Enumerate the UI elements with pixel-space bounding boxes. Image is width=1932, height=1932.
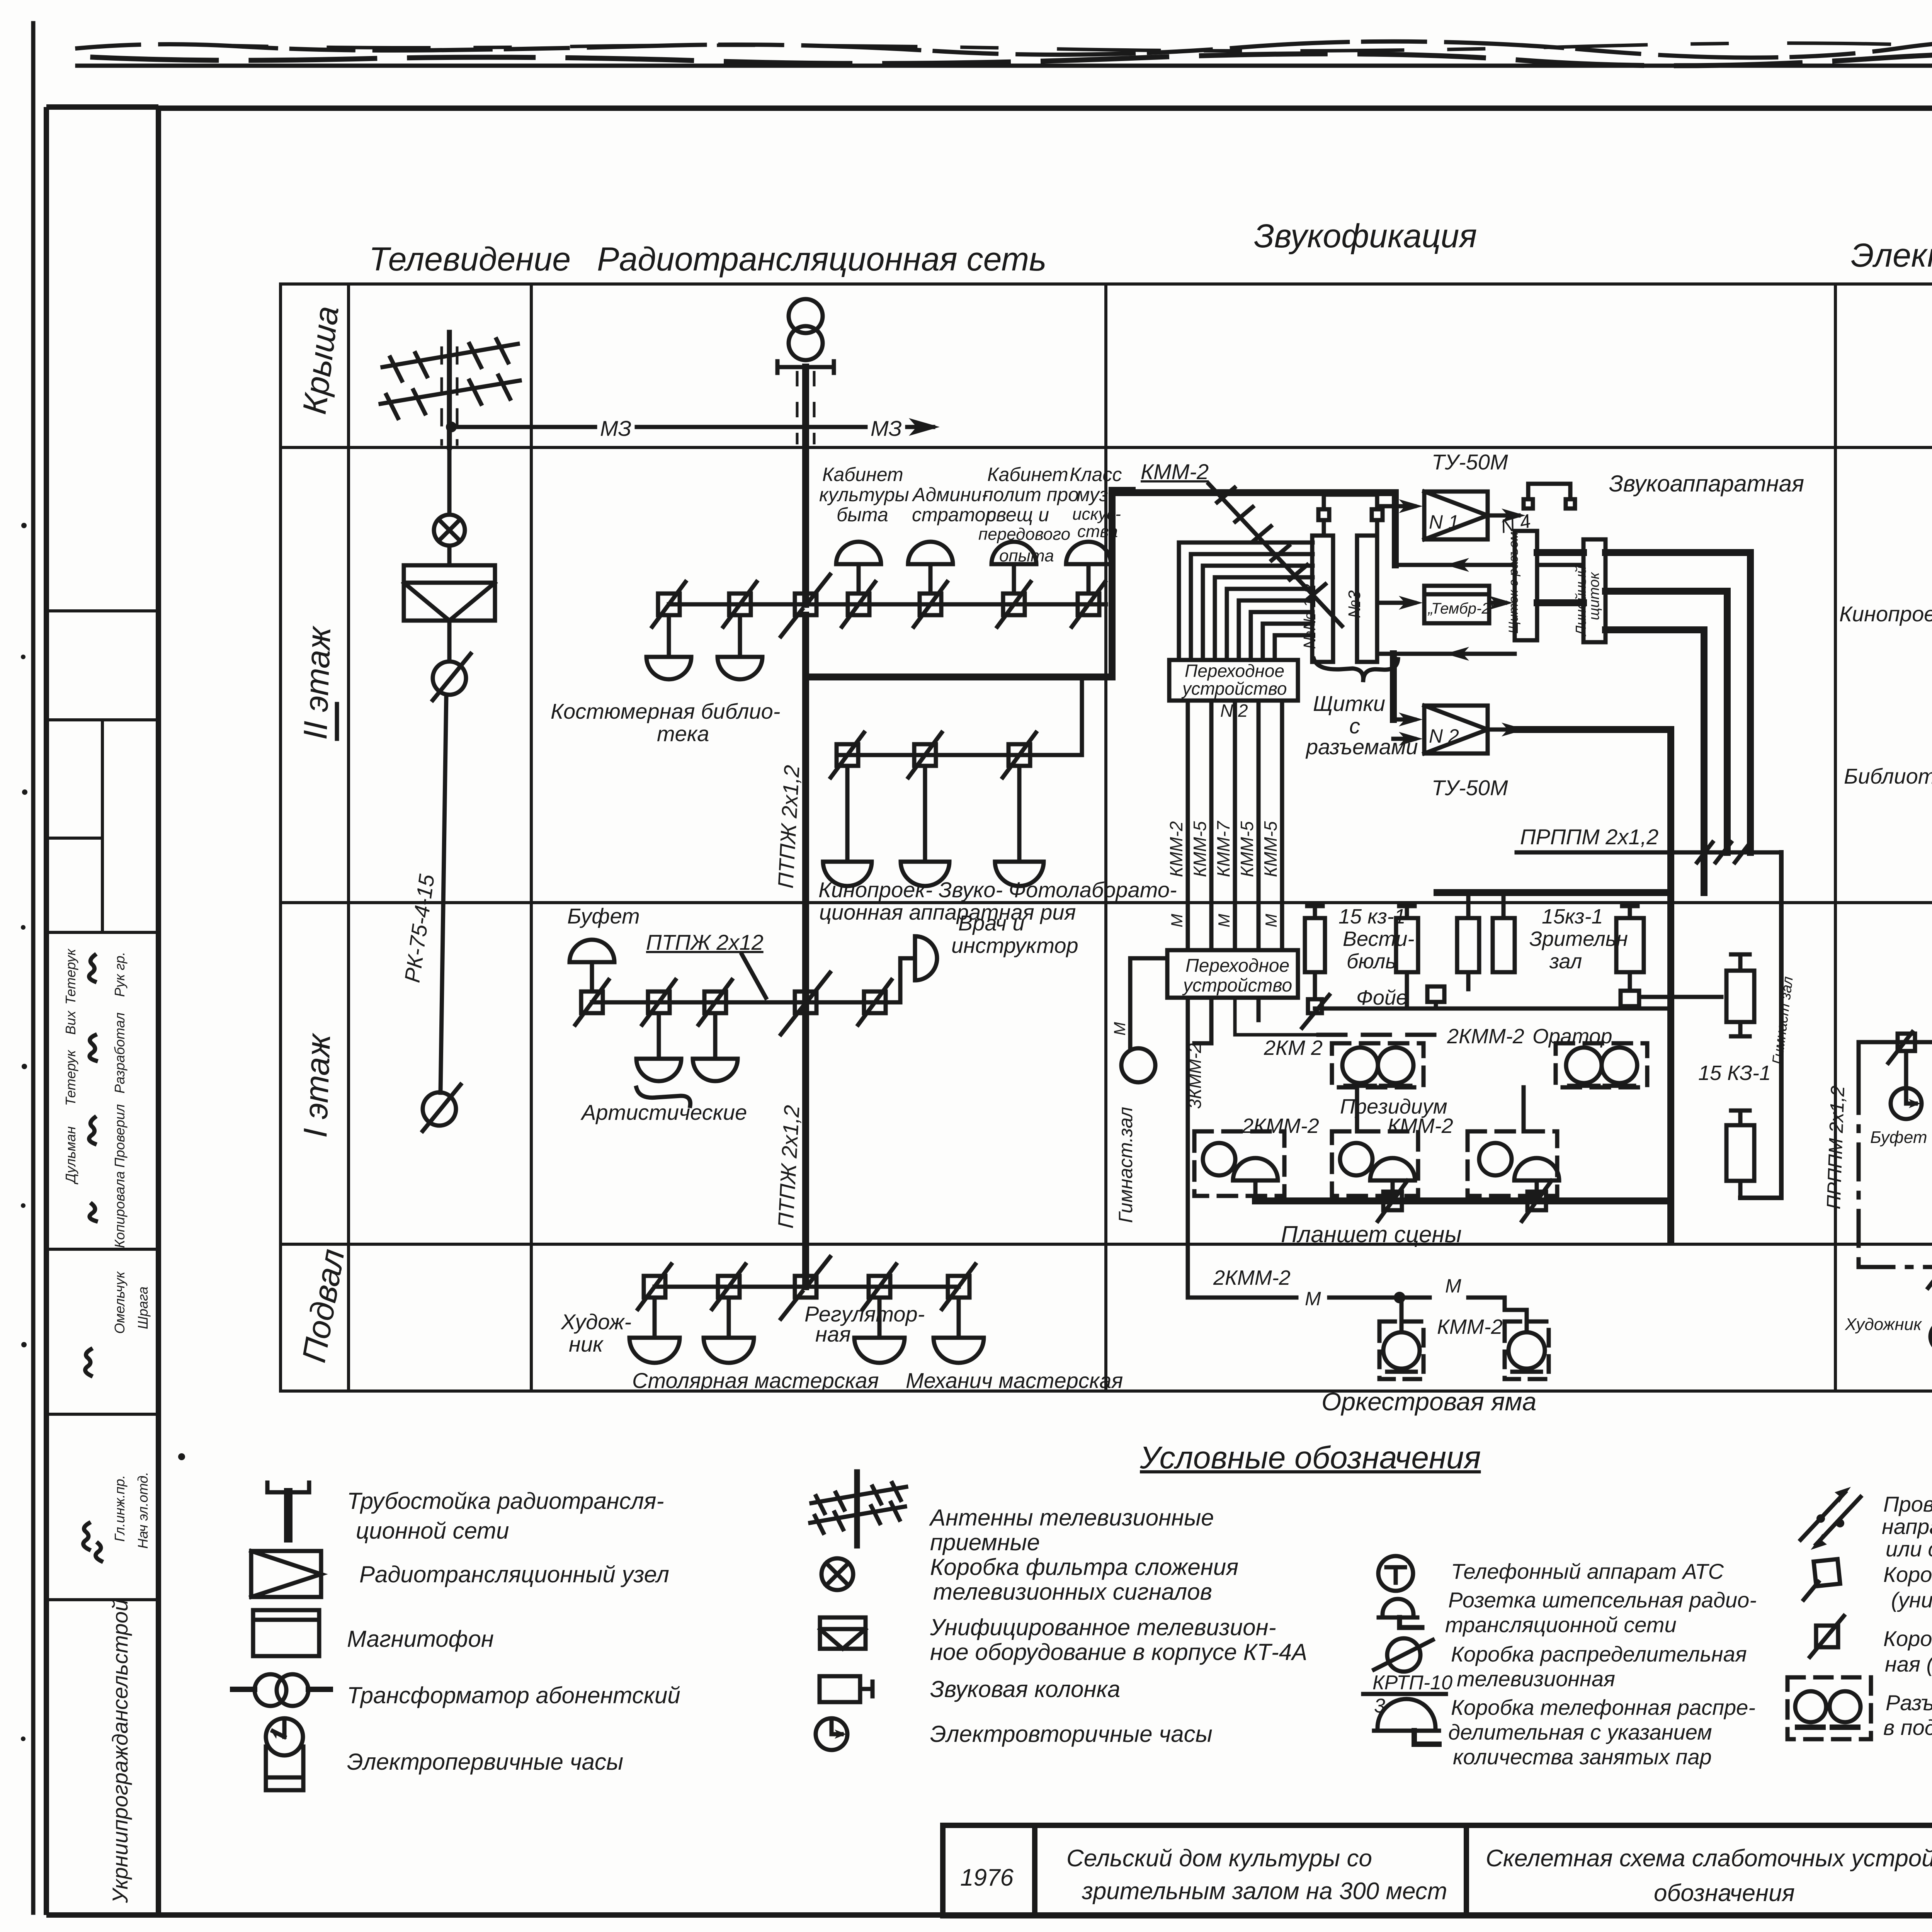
labels I floor clocks [1870,1128,1932,1185]
return line with left arrow (upper) [1395,558,1583,572]
orchestra mic box 1 [1379,1298,1423,1379]
svg-text:телевизионных сигналов: телевизионных сигналов [933,1579,1212,1605]
basement radio bus [655,1285,959,1289]
svg-text:КММ-2: КММ-2 [1388,1114,1453,1138]
I floor mic/speaker group C [1468,1131,1559,1196]
svg-text:Скелетная схема слаботочных: Скелетная схема слаботочных устройств Ус… [1486,1845,1932,1872]
svg-text:Коробка ответвительная: Коробка ответвительная [1883,1562,1932,1587]
radio loop to sound column [806,490,1132,677]
lightning protection wire МЗ with arrow [446,416,940,440]
speaker артистические 2 [693,1013,738,1081]
junction box [781,1257,830,1319]
svg-text:Нач эл.отд.: Нач эл.отд. [135,1472,151,1549]
Врач и инструктор branch [886,958,915,1002]
svg-text:КММ-5: КММ-5 [1237,821,1257,877]
svg-text:Оркестровая яма: Оркестровая яма [1321,1387,1536,1416]
svg-text:ПРППМ 2х1,2: ПРППМ 2х1,2 [1520,825,1658,849]
limiter box [842,582,875,627]
svg-text:2КММ-2: 2КММ-2 [1213,1266,1291,1289]
svg-text:Фойе: Фойе [1356,986,1408,1009]
KT-4A equipment symbol [820,1617,866,1649]
wire [447,621,452,662]
limiter box [858,980,891,1025]
svg-text:Радиотрансляционный узел: Радиотрансляционный узел [359,1561,669,1587]
limiter box on stage bus [1522,1181,1551,1221]
svg-text:инструктор: инструктор [951,933,1078,957]
svg-text:Шрага: Шрага [135,1286,151,1329]
speaker механич 1 [854,1298,905,1363]
connections panel to линейный щиток [1515,553,1583,730]
svg-text:Звукоаппаратная: Звукоаппаратная [1609,471,1804,497]
speaker socket Класс муз искусства [1066,542,1111,594]
svg-text:КММ-5: КММ-5 [1190,821,1210,877]
svg-text:Планшет сцены: Планшет сцены [1281,1221,1462,1247]
svg-text:Электровторичные часы: Электровторичные часы [930,1721,1213,1747]
dashed mic line 2КММ-2 [1318,1033,1441,1037]
svg-text:3КММ-2: 3КММ-2 [1185,1043,1205,1109]
svg-text:ная (универсальная): ная (универсальная) [1885,1652,1932,1676]
svg-text:II этаж: II этаж [297,625,338,740]
svg-text:Коробка распределительная: Коробка распределительная [1451,1642,1747,1666]
svg-text:Коробка телефонная распре-: Коробка телефонная распре- [1451,1695,1755,1719]
svg-text:устройство: устройство [1181,679,1287,699]
limiter box [712,1264,745,1309]
microphone trunk line [1112,493,1395,565]
connector panel N1,2 [1312,536,1333,662]
limiter box [863,1264,896,1309]
svg-text:Кинопроекционная: Кинопроекционная [1839,602,1932,626]
speakers артистические below [636,1013,681,1081]
svg-text:Коробка фильтра сложения: Коробка фильтра сложения [930,1554,1238,1580]
Гимнаст.зал mic jack [1130,958,1167,1048]
svg-text:приемные: приемные [930,1529,1040,1555]
right riser connecting all [1667,893,1674,1240]
link Президиум to group B [1355,1087,1359,1131]
amplifier N2 ТУ-50М [1424,706,1488,753]
svg-text:Столярная мастерская: Столярная мастерская [632,1368,879,1393]
svg-text:Звуковая колонка: Звуковая колонка [930,1676,1120,1702]
junction box [781,575,830,636]
svg-text:Условные обозначения: Условные обозначения [1139,1440,1481,1475]
svg-text:опыта: опыта [999,546,1054,565]
svg-text:Кабинет: Кабинет [822,464,903,485]
svg-text:бюль: бюль [1347,950,1396,973]
svg-text:Врач и: Врач и [958,911,1025,935]
junction box [781,973,830,1034]
svg-text:телевизионная: телевизионная [1457,1667,1615,1691]
radio riser (thick with dashed pair) [802,367,809,604]
svg-text:Тетерук: Тетерук [63,948,78,1005]
tape recorder symbol [253,1610,319,1656]
svg-text:КММ-2: КММ-2 [1166,821,1186,877]
TV filter box (circle-X) [434,515,465,546]
limiter box [638,1264,671,1309]
svg-text:культуры: культуры [819,484,909,505]
линейный щиток [1583,539,1605,642]
svg-text:разъемами: разъемами [1305,735,1418,759]
svg-text:тека: тека [657,721,709,746]
svg-text:Проверил: Проверил [112,1104,128,1168]
svg-text:Разъемы микрофонные: Разъемы микрофонные [1886,1690,1932,1715]
svg-text:быта: быта [837,504,888,526]
svg-text:Щиток с разъем.: Щиток с разъем. [1506,528,1521,634]
speaker звукоаппаратная [901,766,949,886]
svg-text:Костюмерная библио-: Костюмерная библио- [551,699,780,723]
svg-text:КРТП-10: КРТП-10 [1372,1672,1452,1694]
limiter box symbol [1810,1616,1844,1657]
svg-text:Переходное: Переходное [1185,956,1289,976]
branch box symbol [1804,1559,1840,1600]
svg-text:N 1: N 1 [1429,511,1459,533]
jumper plug pair above panels [1318,495,1383,536]
clock boxes basement [1928,1257,1932,1288]
svg-text:или снизу вверх: или снизу вверх [1886,1537,1932,1561]
secondary clock symbol [816,1718,847,1750]
link Оратор to group C [1522,1087,1526,1131]
II floor radio bus [669,602,1106,607]
basement speakers [629,1298,680,1363]
limiter box [1072,582,1105,627]
svg-text:Буфет: Буфет [567,904,640,928]
I floor mic/speaker group B [1332,1131,1418,1196]
arrows into/out of N1 [1377,499,1526,522]
speaker socket Кабинет культуры быта [836,542,881,594]
I floor mic/speaker group A [1194,1131,1284,1201]
subscriber transformer on pipe stand [777,299,834,373]
svg-text:Провода и кабели в стояке: Провода и кабели в стояке [1883,1492,1932,1516]
svg-text:Звукофикация: Звукофикация [1254,218,1477,255]
speaker Врач и инструктор [915,936,937,980]
limiter box [699,980,732,1025]
microphone connectors symbol [1787,1677,1871,1739]
left stamp block [46,107,158,1915]
TV distribution box (circle with slash) [433,654,471,700]
svg-text:Класс: Класс [1070,464,1122,485]
svg-text:трансляционной сети: трансляционной сети [1445,1612,1677,1637]
svg-text:ная: ная [815,1322,851,1346]
svg-text:М: М [1305,1288,1321,1310]
svg-text:2КМ 2: 2КМ 2 [1264,1036,1323,1060]
svg-text:передового: передового [978,525,1070,544]
return line with left arrow (lower) [1377,647,1515,661]
radio socket symbol [1379,1599,1422,1628]
TV distribution box 2 [423,1085,461,1131]
speaker столярная 2 [704,1298,754,1363]
svg-text:№№ 1,2: №№ 1,2 [1300,584,1319,649]
pipe stand symbol [267,1483,309,1538]
svg-text:„Тембр-2“: „Тембр-2“ [1427,600,1497,617]
limiter box [997,582,1031,627]
arrows into N2 [1393,713,1526,746]
wire [447,546,452,565]
svg-text:Магнитофон: Магнитофон [347,1626,494,1652]
limiter box [1003,733,1036,777]
svg-text:Дульман: Дульман [63,1126,78,1185]
basement clock bus [1859,1267,1932,1321]
svg-text:ТУ-50М: ТУ-50М [1432,776,1508,800]
svg-text:Переходное: Переходное [1185,661,1284,681]
speaker Костюмерная (below) [646,615,691,679]
svg-text:Библиотека: Библиотека [1844,764,1932,788]
svg-text:полит про: полит про [983,484,1079,505]
svg-text:15 КЗ-1: 15 КЗ-1 [1698,1061,1771,1085]
speaker Буфет above [570,940,614,992]
limiter box [575,980,609,1025]
svg-text:Копировала: Копировала [112,1171,128,1248]
svg-text:количества занятых пар: количества занятых пар [1453,1745,1712,1769]
speaker библиотека (below) [718,615,762,679]
orchestra mic box 2 [1505,1298,1549,1379]
15КЗ-1 loudspeaker columns Вестибюль [1305,906,1418,1013]
patch panel (Щиток с разъемами) [1515,531,1537,640]
Переходное устройство (lower box) [1167,950,1298,998]
cable РК-75-4-15 [440,695,446,1093]
svg-text:I этаж: I этаж [297,1032,337,1138]
limiter box [914,582,947,627]
svg-text:Вести-: Вести- [1343,927,1414,951]
svg-text:устройство: устройство [1182,975,1292,996]
svg-text:Коробка ограничитель-: Коробка ограничитель- [1883,1626,1932,1651]
microphone cable bundle (nested L wires) [1179,543,1313,660]
svg-text:Буфет: Буфет [1870,1128,1927,1147]
svg-text:Антенны телевизионные: Антенны телевизионные [929,1505,1214,1531]
svg-text:КММ-7: КММ-7 [1213,821,1233,877]
orchestra pit mic line [1188,998,1296,1298]
Переходное устройство N2 (upper box) [1169,660,1298,701]
stage floor bus [1255,1197,1671,1204]
svg-text:стратор: стратор [912,504,996,526]
svg-text:Худож-: Худож- [560,1310,631,1334]
svg-text:Кинопроек- Звуко- Фотолаборато: Кинопроек- Звуко- Фотолаборато- [818,878,1177,902]
filter box symbol [821,1558,853,1590]
svg-text:Рук гр.: Рук гр. [112,952,128,997]
speaker socket Кабинет полит просвещ [992,542,1036,594]
subscriber transformer symbol [233,1674,330,1706]
svg-text:Розетка штепсельная радио-: Розетка штепсельная радио- [1448,1588,1757,1612]
svg-text:М: М [1445,1275,1461,1297]
svg-text:свещ и: свещ и [986,504,1049,526]
I floor clock bus [1859,1042,1932,1078]
II floor lower bus (кинопроекционная) [837,680,1082,755]
svg-text:направляются, сверху вниз: направляются, сверху вниз [1882,1514,1932,1539]
svg-text:М: М [1111,1022,1129,1036]
svg-text:1976: 1976 [960,1864,1014,1891]
svg-text:ник: ник [569,1332,604,1356]
scan noise top wavy lines [77,36,1932,68]
svg-text:Электропервичные часы: Электропервичные часы [347,1749,623,1775]
top feed line 15КЗ [1437,889,1671,896]
limiter box [652,582,685,627]
I floor radio bus [592,1000,886,1005]
speaker механич 2 [934,1298,984,1363]
svg-text:№3: №3 [1345,590,1364,618]
svg-text:ПРППМ 2х1,2: ПРППМ 2х1,2 [1823,1085,1849,1210]
svg-text:Сельский дом культуры со: Сельский дом культуры со [1066,1845,1372,1872]
clock boxes I floor [1888,1032,1932,1063]
svg-text:ционная аппаратная рия: ционная аппаратная рия [819,900,1076,924]
svg-text:2КММ-2: 2КММ-2 [1447,1025,1524,1048]
TV antenna symbol [810,1472,906,1546]
svg-text:2КММ-2: 2КММ-2 [1242,1114,1319,1138]
svg-text:щиток: щиток [1586,571,1602,620]
svg-text:КММ-5: КММ-5 [1260,821,1281,877]
riser arrows symbol [1801,1487,1861,1550]
limiter box [942,1264,975,1309]
thick network lines to right [1519,553,1750,893]
svg-text:ное оборудование в корпусе: ное оборудование в корпусе КТ-4А [930,1639,1307,1665]
limiter box [723,582,757,627]
microphone lines КММ down to lower box [1188,701,1282,950]
svg-text:Электрочасофикация: Электрочасофикация [1851,237,1932,274]
feeds from lower box to groups [1194,998,1318,1043]
svg-text:Гл.инж.пр.: Гл.инж.пр. [112,1475,128,1542]
limiter box on stage bus [1378,1181,1407,1221]
svg-text:КММ-2: КММ-2 [1141,459,1209,484]
radio node symbol [251,1551,321,1597]
svg-text:в подпольной коробке: в подпольной коробке [1883,1715,1932,1740]
svg-text:ПТПЖ 2х12: ПТПЖ 2х12 [646,930,764,954]
outer thin border left [31,23,36,1913]
svg-text:N 2: N 2 [1429,725,1459,747]
Президиум mic pair [1332,1043,1423,1087]
svg-text:Укрниипрограждансельстрой: Укрниипрограждансельстрой [108,1599,132,1903]
TV distribution box symbol [1374,1638,1433,1672]
speaker фотолаборатория [995,766,1044,886]
left margin dots [21,523,185,1741]
arrows into/out of Тембр-2 [1377,596,1513,610]
svg-text:15 кз-1: 15 кз-1 [1338,905,1406,928]
svg-text:Радиотрансляционная сеть: Радиотрансляционная сеть [597,241,1046,278]
limiter box [642,980,675,1025]
svg-text:Художник: Художник [1845,1315,1922,1334]
svg-text:Унифицированное телевизион-: Унифицированное телевизион- [930,1614,1276,1640]
svg-text:обозначения: обозначения [1654,1880,1795,1906]
svg-text:М: М [1168,914,1186,927]
svg-text:Щитки: Щитки [1313,691,1385,716]
svg-text:Кабинет: Кабинет [987,464,1068,485]
Оратор mic pair [1556,1043,1647,1087]
svg-text:ционной сети: ционной сети [356,1518,509,1544]
svg-text:Админи-: Админи- [912,484,988,505]
svg-text:Артистические: Артистические [580,1100,747,1124]
svg-text:Гимнаст.зал: Гимнаст.зал [1115,1107,1136,1223]
speaker кинопроекционная [823,766,872,886]
phone symbol [1378,1556,1413,1591]
primary clock symbol [266,1718,303,1790]
svg-text:делительная с указанием: делительная с указанием [1448,1720,1712,1744]
svg-text:Трансформатор абонентский: Трансформатор абонентский [347,1682,680,1708]
TV riser wire [447,447,452,515]
room labels II floor radio [819,464,1122,565]
svg-text:зрительным залом на 300 мест: зрительным залом на 300 мест [1082,1878,1447,1905]
svg-text:ТУ-50М: ТУ-50М [1432,450,1508,474]
brace and label Щитки с разъемами [1314,659,1398,680]
Тембр-2 unit [1424,586,1489,623]
connector panel N3 [1357,536,1377,662]
feed lines from panels down to N2 input [1390,654,1397,719]
Гимнаст зал 15КЗ-1 chain [1639,852,1781,1198]
sound column symbol [820,1676,872,1702]
limiter box [908,733,942,777]
15КЗ-1 loudspeaker columns Зрительный зал [1457,893,1644,1006]
svg-text:(универсальная): (универсальная) [1891,1588,1932,1612]
svg-text:Телефонный аппарат АТС: Телефонный аппарат АТС [1451,1559,1724,1583]
svg-text:Вих: Вих [63,1010,78,1035]
svg-text:Зрительн: Зрительн [1529,927,1628,951]
svg-text:МЗ: МЗ [600,416,631,440]
svg-text:Омельчук: Омельчук [112,1271,128,1334]
svg-text:М: М [1262,914,1280,927]
speaker socket Администратор [908,542,953,594]
svg-text:Телевидение: Телевидение [369,241,571,278]
bottom gathering line [1302,986,1671,1028]
svg-text:зал: зал [1549,950,1582,973]
svg-text:Тетерук: Тетерук [63,1049,78,1106]
svg-text:Разработал: Разработал [112,1012,128,1094]
svg-text:Трубостойка радиотрансля-: Трубостойка радиотрансля- [347,1488,664,1514]
brace артистические [636,1088,690,1106]
TV antenna [381,332,520,447]
svg-text:15кз-1: 15кз-1 [1542,905,1603,928]
svg-text:Механич мастерская: Механич мастерская [906,1368,1123,1393]
svg-text:М: М [1215,914,1233,927]
svg-text:КММ-2: КММ-2 [1437,1315,1503,1338]
unified TV equipment KT-4A box [404,565,495,621]
svg-text:МЗ: МЗ [871,416,902,440]
clocks basement [1930,1276,1932,1352]
clocks I floor [1891,1051,1932,1119]
limiter box [831,733,864,777]
